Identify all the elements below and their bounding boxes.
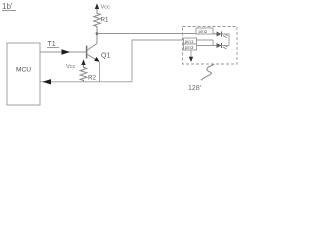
svg-text:Q1: Q1 bbox=[101, 53, 110, 60]
wire bottom horizontal (emitter/R2 to MCU) bbox=[40, 81, 132, 83]
svg-text:Vcc: Vcc bbox=[101, 4, 111, 10]
svg-text:Vcc: Vcc bbox=[66, 64, 76, 70]
node A junction dot bbox=[96, 32, 99, 35]
svg-text:pin2: pin2 bbox=[199, 29, 208, 34]
power Vcc (top) bbox=[95, 3, 110, 10]
wire D2 to right bus bbox=[222, 45, 230, 47]
wire riser to connector (lower) bbox=[132, 40, 213, 82]
MCU box U-MCU bbox=[7, 43, 40, 105]
wire collector of Q1 up to node A bbox=[96, 34, 98, 44]
svg-text:R2: R2 bbox=[88, 74, 97, 81]
arrow into MCU bbox=[43, 79, 52, 84]
right bus wire bbox=[228, 34, 230, 46]
svg-text:R1: R1 bbox=[101, 16, 110, 23]
svg-text:128′: 128′ bbox=[188, 85, 202, 92]
connector module box (dashed) bbox=[183, 27, 238, 65]
power Vcc (middle) bbox=[66, 59, 86, 70]
transistor Q1 bbox=[87, 44, 111, 62]
resistor R2 bbox=[80, 65, 96, 82]
wire node A to connector (upper) bbox=[97, 33, 215, 35]
svg-text:pin1: pin1 bbox=[185, 39, 194, 44]
pin3 label box bbox=[184, 44, 197, 50]
figure label 1b' bbox=[2, 2, 16, 11]
svg-text:T1: T1 bbox=[48, 41, 56, 48]
svg-text:pin3: pin3 bbox=[185, 45, 194, 50]
resistor R1 bbox=[94, 11, 109, 34]
arrow on wire T1 bbox=[62, 49, 71, 54]
arrow down from pin3 bbox=[189, 57, 193, 62]
label T1 bbox=[47, 41, 59, 48]
wire pin3 down bbox=[190, 50, 192, 59]
svg-text:MCU: MCU bbox=[16, 67, 31, 74]
wire T1 (MCU to Q1 base) bbox=[40, 51, 86, 53]
svg-text:1b′: 1b′ bbox=[2, 2, 13, 11]
wire D2 row to pin boxes bbox=[197, 45, 217, 47]
pin2 label box bbox=[196, 28, 213, 34]
leader squiggle to 128' bbox=[201, 64, 215, 80]
left bus wire bbox=[212, 40, 214, 46]
diode D2 (lower) bbox=[217, 43, 228, 49]
diode D1 (upper) bbox=[213, 32, 228, 38]
wire emitter down bbox=[99, 62, 101, 82]
pin1 label box bbox=[184, 38, 197, 44]
wire D1 to right bus bbox=[222, 33, 230, 35]
